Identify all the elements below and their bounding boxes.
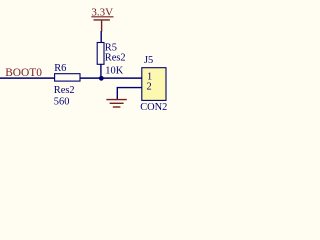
svg-text:R6: R6 (54, 63, 66, 74)
svg-text:2: 2 (147, 82, 152, 93)
svg-text:560: 560 (54, 97, 70, 108)
svg-text:Res2: Res2 (105, 53, 126, 64)
svg-text:CON2: CON2 (140, 102, 167, 113)
svg-text:BOOT0: BOOT0 (5, 67, 42, 79)
svg-text:Res2: Res2 (54, 85, 75, 96)
svg-text:10K: 10K (105, 66, 123, 77)
svg-text:J5: J5 (144, 55, 153, 66)
